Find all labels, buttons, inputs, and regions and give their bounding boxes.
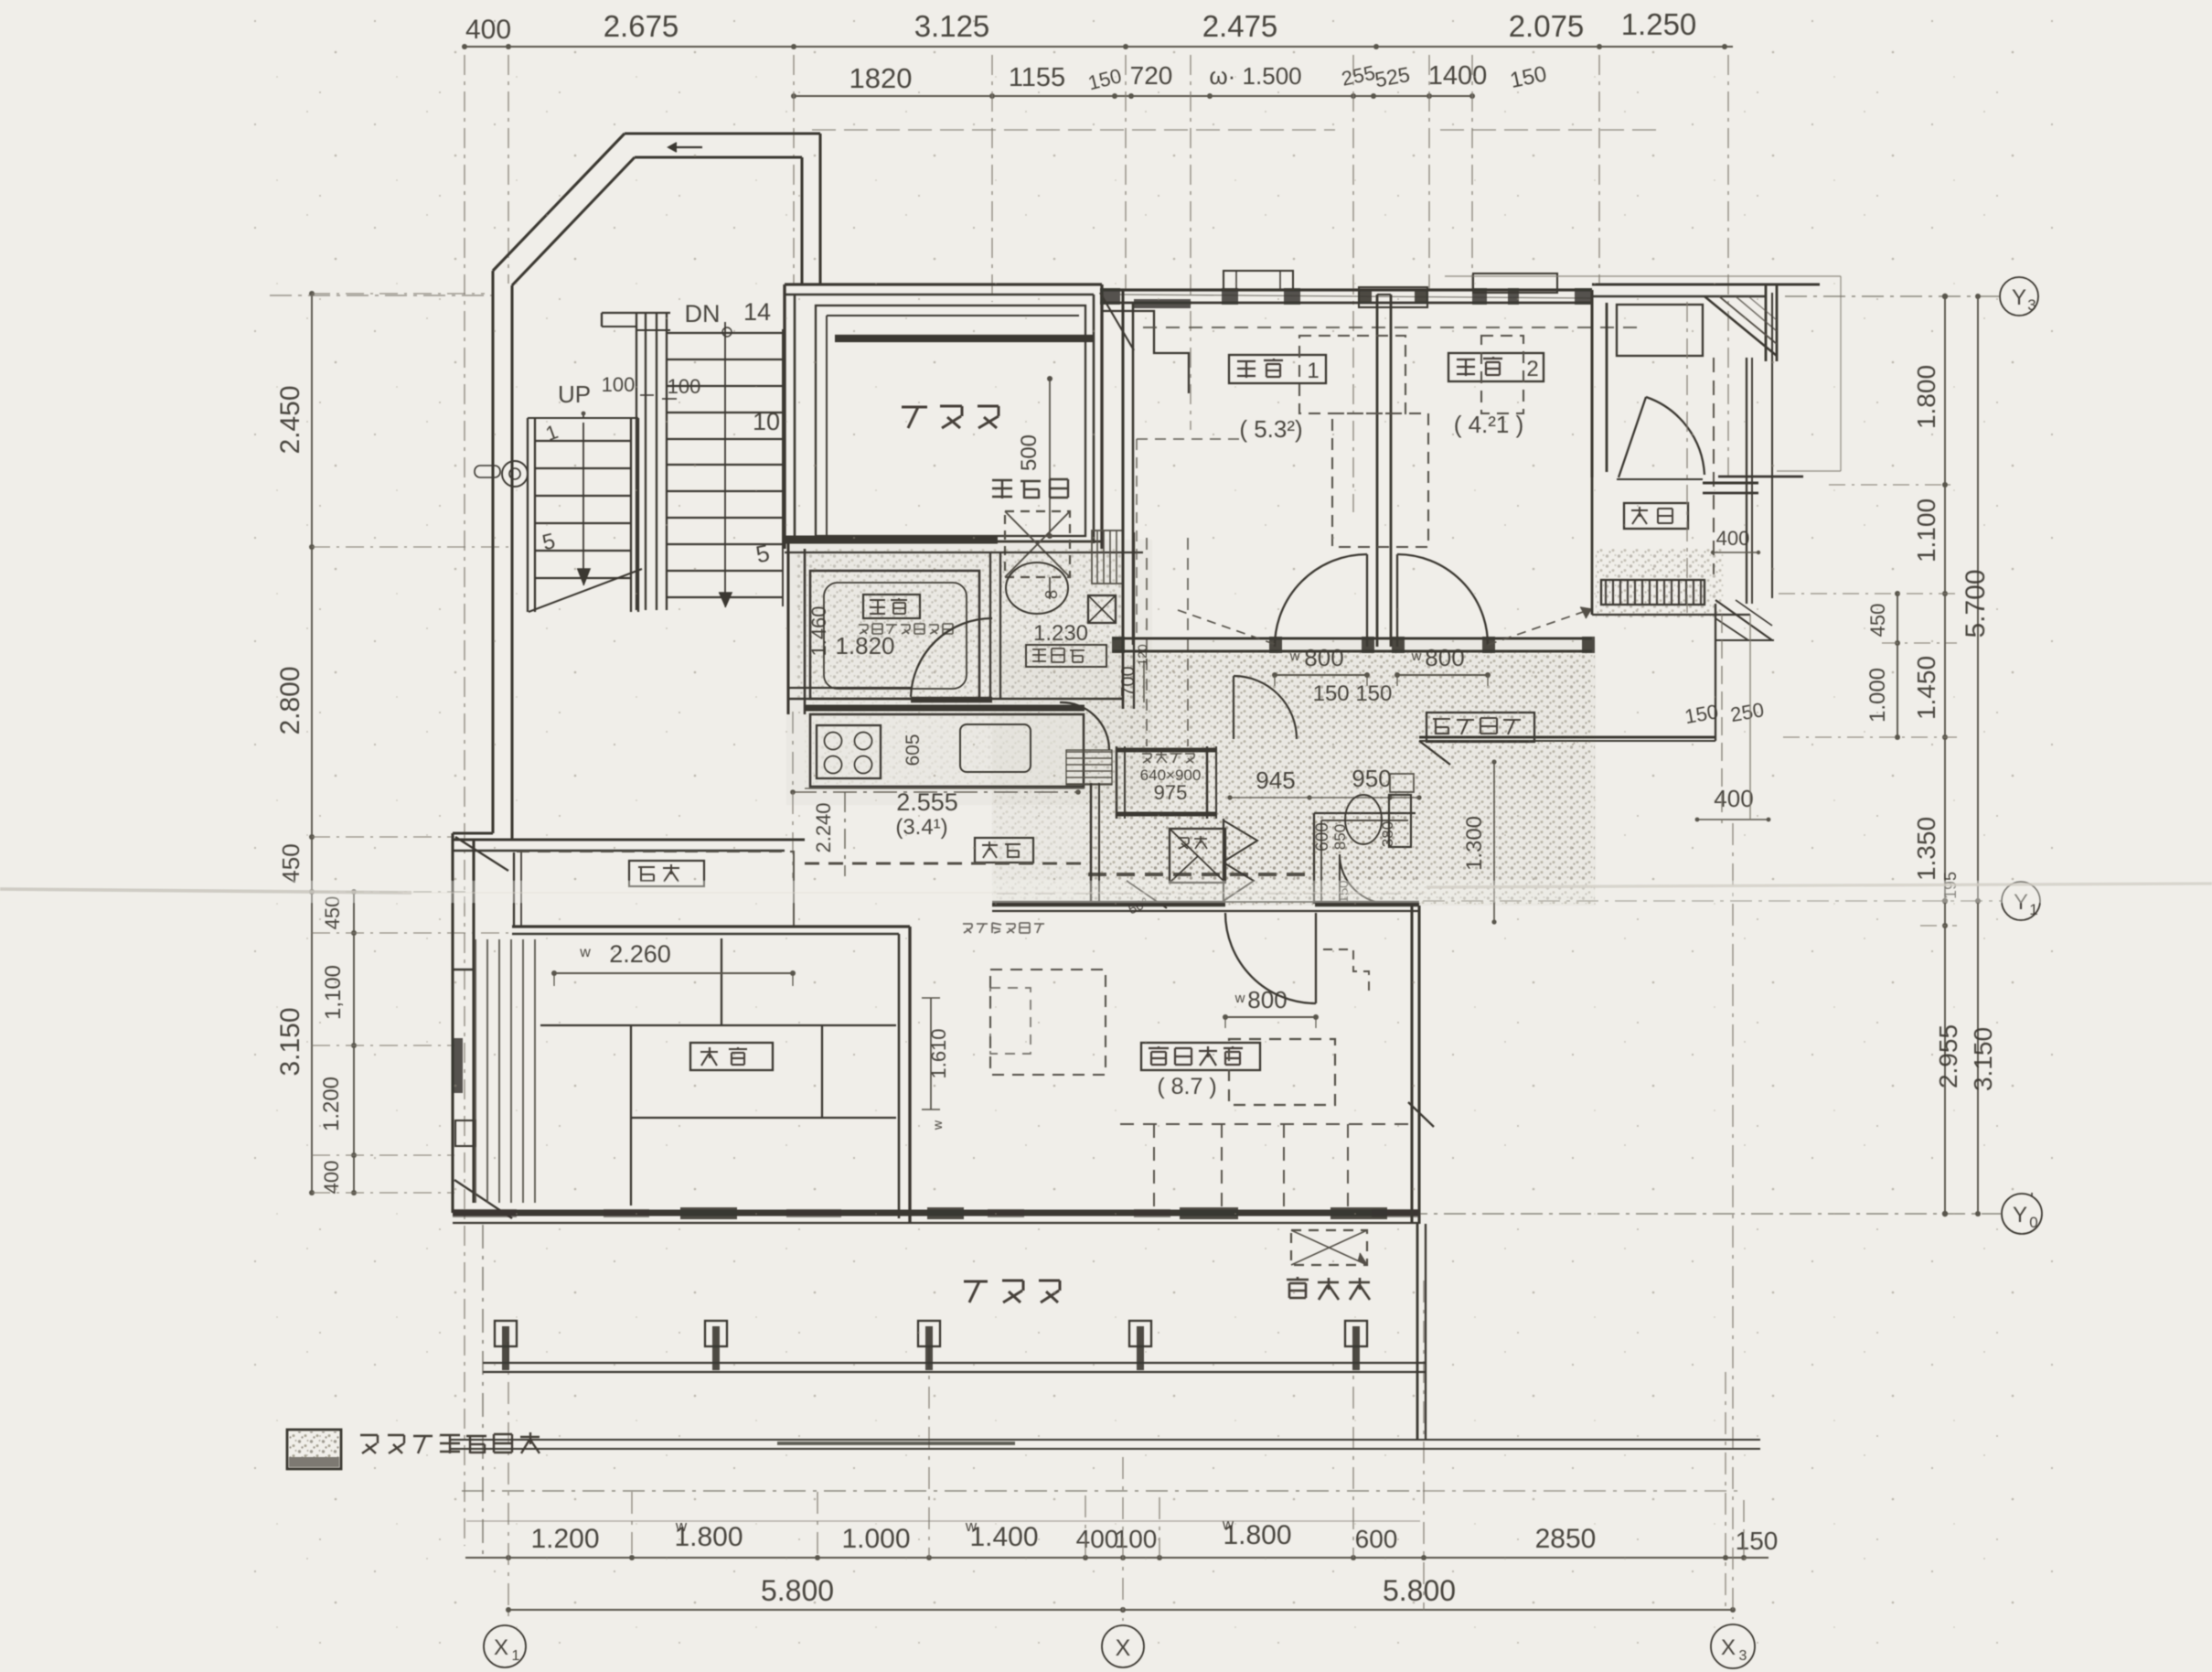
corner diagonals — [455, 837, 508, 871]
toilet door — [1340, 854, 1389, 904]
top extension lines — [464, 55, 465, 1546]
threshold dark dashes — [1088, 873, 1314, 876]
DN stair arrow — [724, 322, 726, 593]
step dashed near right wall — [1323, 949, 1369, 994]
bottom overall dims 5.800 — [508, 1609, 1123, 1611]
living right wall — [1410, 906, 1413, 1224]
washitsu top wall — [512, 925, 910, 927]
dims 800 800 under doors — [1275, 674, 1367, 676]
bath block top wall — [785, 552, 1143, 553]
dim 800 living door — [1225, 1016, 1316, 1018]
terrace door track dark — [835, 335, 1094, 342]
terrace outer walls — [785, 283, 1102, 285]
genkan label — [1624, 503, 1688, 529]
window boxes above top wall — [1224, 271, 1293, 290]
porch top wall — [1592, 283, 1820, 285]
bathroom label — [863, 595, 920, 618]
left dim connectors — [312, 293, 485, 295]
oshiire label — [629, 861, 704, 886]
50 deg diagonal — [1127, 881, 1167, 908]
bedroom inner dashed lines — [1136, 439, 1138, 640]
washitsu left wall sills — [452, 1038, 463, 1093]
X1 circle — [484, 1625, 526, 1667]
right dim lines — [1944, 296, 1946, 901]
hall-living door — [1225, 913, 1316, 1003]
washitsu label — [690, 1043, 773, 1070]
bedroom bottom wall — [1112, 637, 1592, 639]
left wall lower step — [453, 831, 493, 834]
terrace left dashdot — [482, 1225, 484, 1555]
living top wall dark — [992, 901, 1225, 906]
center window box — [1359, 287, 1427, 307]
kitchen counter — [810, 714, 1084, 787]
stainless note — [963, 923, 1044, 933]
bathroom walls — [989, 552, 991, 700]
genkan extension verticals — [1721, 615, 1723, 823]
bottom exterior wall — [453, 1209, 1419, 1216]
yoshitsu1 label — [1229, 355, 1326, 383]
terrace posts — [495, 1321, 517, 1346]
Y3 grid line — [1785, 295, 1999, 297]
Y1 grid line — [1423, 900, 2001, 902]
genkan step hatch — [1601, 580, 1704, 605]
oshiire side verticals — [513, 852, 515, 927]
door corner dashed diagonals — [1178, 610, 1277, 645]
terrace bottom dark wall — [785, 536, 998, 544]
bath area texture — [796, 549, 1123, 700]
bedroom top wall dark blobs — [1100, 288, 1120, 305]
hall floor texture — [1127, 651, 1595, 904]
bath door arc — [911, 618, 992, 697]
washitsu right wall — [908, 927, 911, 1224]
bottom wall window sills — [680, 1207, 737, 1219]
tatami lines — [721, 938, 722, 1025]
legend text — [360, 1432, 540, 1453]
bottom wall piers — [453, 1209, 517, 1217]
genkan lower walls — [1591, 477, 1594, 615]
washroom fixtures — [1006, 563, 1068, 614]
toilet fixture — [1345, 795, 1382, 844]
bath tub — [810, 571, 979, 699]
genkan right verticals — [1713, 358, 1715, 574]
dining table dashed — [1229, 1039, 1335, 1105]
oshiire dashes — [517, 851, 794, 852]
bedroom closet dashed rects — [1299, 336, 1405, 413]
UP stair steps — [535, 440, 631, 442]
bath left exterior wall — [786, 540, 789, 714]
terrace label — [902, 406, 999, 428]
water heater yuwakashiki — [992, 479, 1068, 498]
living dashed floor lines — [1120, 1123, 1412, 1125]
closet fumikomi — [1170, 829, 1225, 883]
scan crease — [0, 881, 2212, 903]
kitchen counter bullnose — [1060, 702, 1109, 750]
upper storey dashed outline — [1143, 327, 1642, 328]
living room label — [1141, 1043, 1260, 1070]
porch outer thin outline — [1445, 275, 1841, 277]
kitchen table dashed — [990, 970, 1106, 1075]
bedroom step from terrace — [1102, 311, 1189, 393]
legend box — [287, 1430, 341, 1469]
porch diagonal hatch — [1704, 296, 1777, 356]
top dimension line row1 — [465, 46, 1733, 48]
hall label — [1427, 713, 1534, 742]
folding door kitchen-hall — [1224, 820, 1257, 862]
dim 2.260 — [554, 972, 793, 974]
bedroom right wall — [1590, 290, 1593, 477]
bedroom center partition — [1376, 295, 1379, 647]
bottom wall jamb blobs — [1269, 637, 1282, 653]
wall below stair zone — [454, 838, 805, 841]
passage dashed verticals — [1146, 538, 1148, 746]
outer wall upper-left vertical — [491, 271, 494, 833]
slab edge lines — [451, 1439, 1760, 1441]
X circle — [1102, 1625, 1144, 1667]
Y1 faint inside — [997, 893, 1423, 895]
bedroom left wall — [1121, 290, 1124, 651]
entry door hardware — [502, 461, 528, 487]
bedroom top wall — [1100, 288, 1592, 291]
yoshitsu2 label — [1448, 353, 1544, 381]
kitchen-dining dashed lower — [810, 786, 1085, 788]
sink — [960, 724, 1031, 772]
kitchen counter dark top — [805, 704, 1085, 711]
bottom dimension line — [465, 1557, 1769, 1559]
bottom extension lines — [508, 1342, 509, 1621]
grid ext 1845 — [1686, 302, 1688, 613]
genkan door — [1619, 397, 1646, 477]
UP arrow — [582, 423, 584, 569]
genkan step diagonal hatch lower — [1715, 600, 1772, 640]
left dimension line inner — [353, 892, 355, 1193]
terrace inner frame — [816, 305, 1085, 536]
porch step rect — [1617, 305, 1703, 356]
arrow mark top outline — [669, 146, 702, 148]
dims above wall 975 945 950 — [1142, 752, 1194, 763]
UP stair rails — [527, 418, 529, 612]
dim 1.300 — [1493, 762, 1495, 922]
Y0 circle — [2002, 1194, 2042, 1234]
lower terrace label — [964, 1281, 1060, 1302]
UP stair cut diagonal — [529, 569, 642, 612]
kitchen right wall — [1090, 783, 1093, 904]
terrace deck edge — [483, 1362, 1426, 1364]
bedroom door 2 — [1397, 554, 1488, 645]
terrace right wall — [1416, 1224, 1419, 1441]
dim 700 left of rooms — [1143, 660, 1145, 702]
genkan step texture — [1596, 549, 1724, 617]
toilet room — [1313, 813, 1315, 904]
Y1 circle — [2002, 882, 2040, 920]
porch right wall — [1765, 284, 1768, 361]
bedroom door 1 — [1275, 554, 1367, 647]
stove — [817, 725, 881, 778]
Y3 circle — [2000, 277, 2038, 316]
DN stair steps — [667, 332, 783, 334]
X3 circle — [1711, 1624, 1755, 1668]
outer wall top horizontal — [625, 132, 820, 134]
outer wall right vertical to terrace — [818, 134, 821, 284]
outer wall diagonal — [493, 134, 625, 271]
washer niche walls — [1116, 746, 1118, 819]
top dimension line row2 — [794, 95, 1472, 97]
hall door upper-left — [1234, 676, 1297, 739]
DN stair rails — [636, 313, 637, 610]
okugai dashed box — [1291, 1230, 1367, 1265]
genkan north wall right — [1703, 481, 1758, 484]
dim 1.610 — [930, 998, 932, 1109]
dim 500 terrace — [1049, 379, 1051, 536]
Y0 grid line — [1329, 1213, 2001, 1215]
okugai label — [1287, 1277, 1370, 1300]
right dim connectors — [1829, 484, 1957, 486]
left dimension line outer — [311, 294, 313, 1193]
engawa floor boards — [475, 939, 476, 1203]
wall washroom-hall — [1122, 527, 1125, 709]
